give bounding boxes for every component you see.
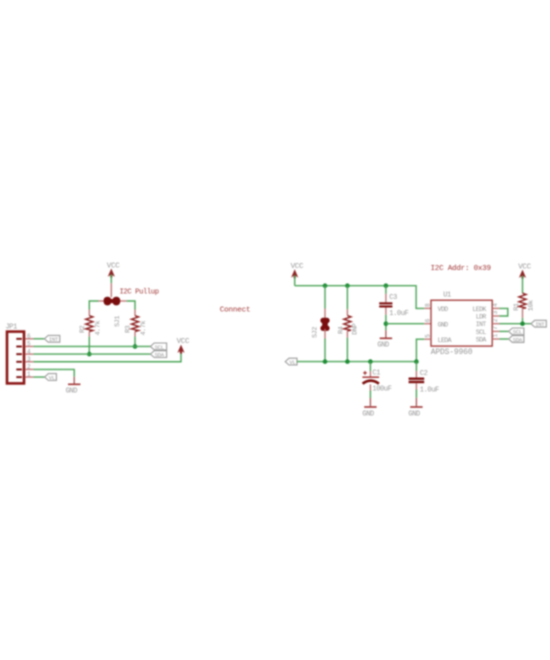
svg-text:5: 5 bbox=[27, 341, 31, 348]
junction bus2/SJ2 bbox=[323, 359, 328, 364]
resistor R4 DNP bbox=[337, 286, 359, 362]
resistor R3 4.7k bbox=[125, 310, 149, 337]
net label SCL (right) bbox=[509, 328, 524, 336]
svg-text:APDS-9960: APDS-9960 bbox=[431, 348, 473, 357]
ground (C3) bbox=[377, 338, 392, 350]
wire JP1 pin2 to GND bbox=[33, 369, 74, 376]
ground (JP1 pin2) bbox=[66, 384, 81, 396]
svg-text:R4: R4 bbox=[337, 326, 345, 334]
svg-text:C2: C2 bbox=[420, 370, 428, 378]
svg-text:VCC: VCC bbox=[177, 338, 190, 346]
svg-text:SDA: SDA bbox=[513, 336, 523, 343]
svg-text:10k: 10k bbox=[528, 300, 536, 311]
resistor R1 10k bbox=[513, 276, 535, 324]
wire JP1 pin5 to SCL tag (SCL net) bbox=[33, 345, 150, 347]
svg-text:LDR: LDR bbox=[476, 314, 487, 321]
svg-text:VDD: VDD bbox=[438, 306, 449, 313]
svg-text:1: 1 bbox=[27, 371, 31, 378]
svg-text:I2C Addr: 0x39: I2C Addr: 0x39 bbox=[431, 265, 492, 273]
wire bottom bus bbox=[297, 361, 416, 363]
svg-text:4: 4 bbox=[27, 348, 31, 355]
svg-text:Connect: Connect bbox=[220, 307, 251, 315]
wire U1 LEDA pin to bottom bus bbox=[416, 339, 431, 361]
svg-text:R1: R1 bbox=[513, 303, 521, 311]
wire SJ1 right to R3 top bbox=[127, 301, 135, 310]
svg-text:SDA: SDA bbox=[476, 337, 487, 344]
svg-text:6: 6 bbox=[27, 333, 31, 340]
svg-text:100uF: 100uF bbox=[372, 385, 391, 393]
junction R1/INT bbox=[520, 321, 525, 326]
svg-text:GND: GND bbox=[66, 388, 78, 396]
svg-text:DNP: DNP bbox=[352, 323, 360, 334]
net label SCL (left) bbox=[150, 343, 166, 351]
wire JP1 pin3 to VCC arrow bbox=[33, 353, 181, 362]
svg-text:1.0uF: 1.0uF bbox=[420, 386, 439, 394]
svg-text:INT: INT bbox=[476, 321, 487, 328]
junction bus2/C2 bbox=[414, 359, 419, 364]
wire U1 INT pin to tag bbox=[492, 323, 531, 325]
junction bus/SJ2 bbox=[323, 283, 328, 288]
svg-text:SCL: SCL bbox=[155, 344, 164, 351]
wire C3 bottom to ground bbox=[385, 330, 387, 337]
svg-text:1.0uF: 1.0uF bbox=[389, 310, 408, 318]
svg-text:R2: R2 bbox=[79, 325, 87, 333]
wire U1 SDA pin to tag bbox=[492, 338, 508, 340]
svg-text:GND: GND bbox=[438, 321, 449, 328]
net label VL (left) bbox=[45, 374, 57, 382]
svg-text:SDA: SDA bbox=[155, 352, 165, 359]
wire C3 junction to U1 GND pin bbox=[386, 323, 431, 325]
svg-text:LEDK: LEDK bbox=[472, 306, 486, 313]
power symbol VCC (mid, at JP1 pin3) bbox=[177, 338, 190, 354]
wire pin3 stub bbox=[492, 315, 499, 317]
solder jumper SJ1 bbox=[99, 297, 127, 327]
svg-text:C3: C3 bbox=[389, 294, 397, 302]
JP1 pin numbers bbox=[27, 333, 31, 378]
svg-text:R3: R3 bbox=[125, 325, 133, 333]
svg-text:VCC: VCC bbox=[518, 263, 531, 271]
ground (C1) bbox=[362, 406, 376, 418]
junction C3/GND-pin net bbox=[384, 321, 389, 326]
net label SDA (left) bbox=[150, 351, 166, 359]
power symbol VCC (right top-left) bbox=[291, 263, 304, 278]
wire JP1 pin1 to VL tag bbox=[33, 376, 44, 378]
svg-text:8: 8 bbox=[424, 303, 431, 307]
svg-text:SJ2: SJ2 bbox=[312, 327, 320, 338]
wire VCC down and top bus to U1 VDD bbox=[295, 275, 431, 308]
svg-text:6: 6 bbox=[424, 318, 431, 322]
JP1 pin stubs bbox=[25, 339, 33, 377]
wire LEDK-LDR loop bbox=[500, 308, 508, 316]
svg-text:4: 4 bbox=[492, 303, 499, 307]
net label INT (left) bbox=[44, 335, 59, 343]
capacitor C3 1.0uF bbox=[379, 286, 408, 331]
svg-text:VCC: VCC bbox=[291, 263, 304, 271]
solder jumper SJ2 bbox=[312, 286, 330, 362]
wire pin4 stub bbox=[492, 307, 499, 309]
wire R3 bottom to SCL net bbox=[134, 337, 136, 347]
svg-text:4.7k: 4.7k bbox=[95, 320, 103, 335]
svg-text:4.7k: 4.7k bbox=[140, 320, 148, 335]
resistor R2 4.7k bbox=[79, 310, 103, 337]
svg-text:2: 2 bbox=[492, 318, 499, 322]
svg-text:INT: INT bbox=[535, 321, 545, 328]
svg-text:C1: C1 bbox=[372, 370, 380, 378]
svg-text:VL: VL bbox=[289, 359, 295, 366]
power symbol VCC (far right) bbox=[518, 263, 531, 278]
svg-text:GND: GND bbox=[362, 410, 374, 418]
svg-text:VL: VL bbox=[49, 374, 55, 381]
IC U1 APDS-9960 bbox=[424, 292, 499, 358]
junction bus/R4 bbox=[345, 283, 350, 288]
wire JP1 pin6 to INT tag bbox=[33, 338, 44, 340]
svg-text:SCL: SCL bbox=[513, 329, 522, 336]
svg-text:SJ1: SJ1 bbox=[114, 316, 122, 327]
capacitor C1 100uF (polarized) bbox=[362, 362, 391, 407]
svg-text:SCL: SCL bbox=[476, 329, 487, 336]
junction bus/C3 bbox=[384, 283, 389, 288]
junction R3/SCL bbox=[133, 344, 138, 349]
ground (C2) bbox=[408, 406, 422, 418]
svg-text:GND: GND bbox=[377, 341, 389, 349]
wire U1 SCL pin to tag bbox=[492, 330, 508, 332]
svg-text:2: 2 bbox=[27, 364, 31, 371]
net label INT (right) bbox=[531, 320, 546, 328]
svg-text:7: 7 bbox=[492, 326, 499, 330]
wire VCC to SJ1 bbox=[110, 275, 112, 298]
wire R2 bottom to SDA net bbox=[88, 337, 90, 355]
wire SJ1 left to R2 top bbox=[89, 301, 98, 310]
svg-text:1: 1 bbox=[492, 333, 499, 337]
svg-text:3: 3 bbox=[492, 310, 499, 314]
svg-text:GND: GND bbox=[408, 410, 420, 418]
svg-text:5: 5 bbox=[424, 334, 431, 338]
svg-text:INT: INT bbox=[49, 336, 59, 343]
svg-text:I2C Pullup: I2C Pullup bbox=[120, 289, 159, 297]
net label SDA (right) bbox=[509, 336, 524, 344]
junction R2/SDA bbox=[87, 352, 92, 357]
power symbol VCC (above SJ1) bbox=[107, 262, 120, 277]
svg-text:LEDA: LEDA bbox=[438, 337, 452, 344]
junction bus2/R4 bbox=[345, 359, 350, 364]
svg-text:VCC: VCC bbox=[107, 262, 120, 270]
net label VL (right) bbox=[285, 358, 297, 366]
svg-text:3: 3 bbox=[27, 356, 31, 363]
wire JP1 pin4 to SDA tag (SDA net) bbox=[33, 353, 150, 355]
capacitor C2 1.0uF bbox=[409, 362, 439, 407]
svg-text:U1: U1 bbox=[443, 292, 451, 300]
connector JP1 bbox=[6, 324, 25, 384]
junction bus2/C1 bbox=[368, 359, 373, 364]
